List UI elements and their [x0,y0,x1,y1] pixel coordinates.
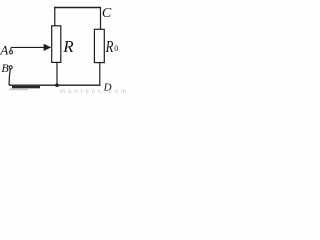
wire bottom rail B-D [9,84,100,86]
svg-text:R: R [62,37,74,56]
wire top rail C-node [54,7,101,9]
terminal B circle [9,66,12,69]
svg-text:mantenc.com: mantenc.com [60,89,129,95]
wire R0 bottom to rail [99,63,101,86]
rheostat arrow head pointing at R [44,44,52,51]
cropped text bar artifact bottom-left [12,86,40,88]
terminal A circle [9,51,12,54]
cropped text smudge [9,88,28,90]
wire left vertical from top rail to R [54,7,56,26]
svg-text:B: B [1,61,9,75]
wire R bottom to rail [56,62,58,85]
svg-text:R: R [105,37,114,56]
wire right vertical from top rail to R0 [100,7,102,29]
resistor R1 (rheostat R body) [52,26,61,63]
wire A horizontal to arrow [11,46,45,48]
resistor R0 body [94,29,104,62]
svg-text:A: A [0,43,8,58]
svg-text:C: C [102,6,112,21]
background paper [0,0,132,95]
junction dot on bottom rail [55,83,59,87]
wire A stub up [10,48,12,51]
svg-text:0: 0 [114,44,118,53]
wire B vertical down to rail [9,69,10,86]
